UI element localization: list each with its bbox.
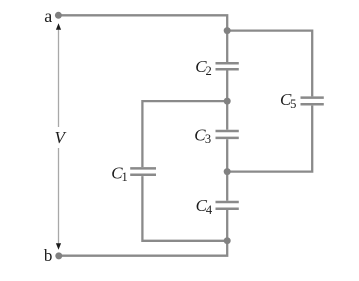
svg-text:4: 4 [206, 203, 213, 217]
svg-text:1: 1 [122, 170, 128, 184]
svg-text:2: 2 [206, 64, 212, 78]
svg-text:5: 5 [290, 97, 296, 111]
svg-text:V: V [55, 128, 68, 147]
svg-text:b: b [44, 246, 53, 265]
svg-text:a: a [44, 6, 52, 26]
svg-text:3: 3 [205, 132, 211, 146]
